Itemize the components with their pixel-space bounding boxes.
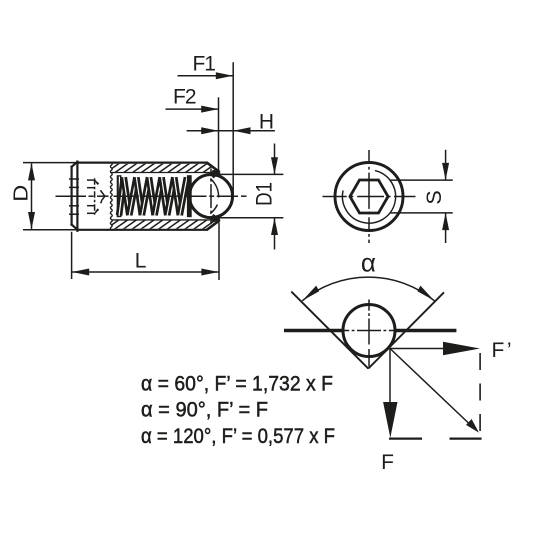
dimension F2 <box>166 97 219 171</box>
dimension D <box>23 163 77 230</box>
end view thread arc <box>342 171 395 224</box>
dimension F1 <box>178 62 234 196</box>
svg-text:L: L <box>135 249 147 272</box>
surface line <box>284 329 456 333</box>
ball centerlines <box>342 300 397 367</box>
svg-text:F’: F’ <box>492 339 512 362</box>
svg-text:F2: F2 <box>173 85 197 108</box>
ball in V-groove <box>343 305 395 357</box>
plunger body outline <box>72 162 207 231</box>
dimension S <box>391 150 453 243</box>
ball <box>189 175 232 218</box>
alpha angle arc <box>302 277 434 301</box>
retaining lip top <box>207 163 220 178</box>
resultant diagonal vector <box>390 349 469 424</box>
end view hexagon <box>350 180 388 213</box>
svg-text:α: α <box>361 248 376 278</box>
thread hatch top band <box>96 163 244 174</box>
hex socket hidden lines <box>87 180 102 213</box>
socket vertical centerline <box>94 178 96 215</box>
V-groove lines <box>291 292 444 369</box>
end view outer circle <box>335 163 403 231</box>
svg-text:α = 90°, F’ = F: α = 90°, F’ = F <box>141 399 268 422</box>
thread hatch bottom band <box>96 219 244 230</box>
centerline arrow <box>97 192 109 201</box>
svg-text:D1: D1 <box>251 182 276 206</box>
force F' vector <box>390 348 448 350</box>
dimension H <box>187 130 275 132</box>
svg-text:H: H <box>259 111 274 134</box>
end view centerlines <box>323 150 416 243</box>
svg-text:F1: F1 <box>192 53 216 76</box>
svg-text:α = 60°, F’ = 1,732 x F: α = 60°, F’ = 1,732 x F <box>141 373 333 396</box>
lip edge arcs inside ball <box>210 179 218 214</box>
dashed construction lines <box>479 353 481 439</box>
dimension D1 <box>216 144 283 250</box>
force F vector <box>389 349 391 407</box>
svg-text:α = 120°, F’ = 0,577 x F: α = 120°, F’ = 0,577 x F <box>141 425 335 448</box>
svg-text:S: S <box>422 190 446 204</box>
svg-text:F: F <box>381 451 394 474</box>
svg-text:D: D <box>11 185 33 202</box>
thread ticks on left rim <box>69 179 79 214</box>
ball vertical centerline <box>210 169 212 225</box>
dimension L <box>72 223 219 281</box>
break (wavy) line <box>110 163 112 230</box>
main centerline (side view axis) <box>56 195 247 197</box>
retaining lip bottom <box>207 215 220 230</box>
spring <box>119 175 189 217</box>
bore lines (inner walls) <box>111 173 214 220</box>
